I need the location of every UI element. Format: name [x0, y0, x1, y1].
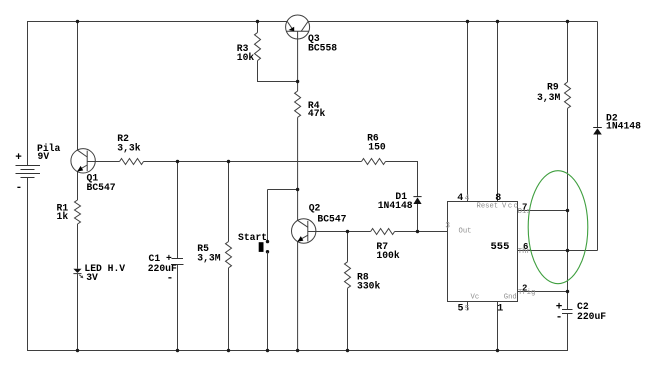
label R5 3,3M — [197, 243, 220, 264]
svg-text:1N4148: 1N4148 — [378, 200, 413, 211]
label D2 1N4148 — [606, 112, 641, 131]
capacitor C2 220uF — [562, 310, 573, 314]
label battery Pila 9V — [15, 143, 60, 194]
node Dis / R9 column — [566, 209, 569, 212]
svg-text:4: 4 — [465, 194, 470, 203]
wire R9/C2 column from top rail — [567, 22, 569, 83]
svg-text:1: 1 — [497, 303, 503, 314]
wire C2 to bottom rail — [567, 314, 569, 351]
svg-text:3,3M: 3,3M — [537, 92, 560, 103]
wire R3 bottom L to Q3 base node — [258, 61, 298, 82]
label Q1 BC547 — [87, 173, 116, 193]
node start branch / collector line — [296, 188, 299, 191]
svg-text:5: 5 — [465, 304, 470, 313]
wire R4 to Q2 collector — [297, 117, 299, 220]
wire left rail from top to battery — [27, 22, 29, 166]
wire left rail from battery to bottom — [27, 178, 29, 351]
wire LED to bottom rail — [77, 274, 79, 351]
wire switch to bottom rail — [267, 252, 269, 351]
svg-text:3: 3 — [445, 221, 450, 230]
transistor Q2 BC547 — [292, 219, 317, 243]
svg-text:3,3k: 3,3k — [117, 142, 140, 153]
svg-text:-: - — [16, 182, 23, 194]
wire pin 2 Trig to C2 node — [518, 291, 568, 293]
svg-text:-: - — [167, 273, 174, 285]
transistor Q3 BC558 — [286, 15, 310, 39]
wire R8 branch — [347, 232, 349, 262]
node bottom rail / R8 — [346, 349, 349, 352]
capacitor C1 220uF — [171, 259, 184, 265]
node base line / C1 — [176, 160, 179, 163]
wire pin 7 Dis to node — [518, 210, 568, 212]
wire Q1 base lead — [87, 161, 119, 163]
node bottom rail / pin1 — [496, 349, 499, 352]
wire D2 column from top rail right end — [597, 22, 599, 128]
Q3 emitter arrow — [289, 27, 295, 32]
label R9 3,3M — [537, 81, 560, 103]
label C2 220uF — [556, 301, 607, 323]
svg-text:555: 555 — [491, 241, 510, 253]
svg-text:-: - — [556, 311, 563, 323]
label R8 330k — [357, 271, 380, 291]
node bottom rail / switch — [266, 349, 269, 352]
svg-text:1N4148: 1N4148 — [606, 120, 641, 131]
node Trig / C2 — [566, 290, 569, 293]
transistor Q1 BC547 — [71, 149, 96, 173]
node R3-R4-Q3 base — [296, 80, 299, 83]
svg-text:Start: Start — [238, 232, 267, 243]
node top rail / pin8 — [496, 20, 499, 23]
svg-text:100k: 100k — [376, 250, 399, 261]
wire collector branch x=77 from top rail to Q1 — [77, 22, 79, 151]
wire R7 to 555 Out pin 3 — [395, 231, 448, 233]
svg-text:1k: 1k — [57, 211, 69, 222]
label R3 10k — [237, 43, 255, 63]
svg-text:Out: Out — [459, 227, 472, 235]
resistor R1 — [75, 200, 81, 224]
wire Q3 base down to node — [297, 31, 299, 91]
diode D2 1N4148 — [593, 128, 602, 135]
wire R9 down through pin7/pin6/pin2 nodes to C2 — [567, 108, 569, 309]
label Q2 BC547 — [309, 202, 347, 224]
svg-text:3V: 3V — [86, 272, 98, 283]
wire R5 to bottom rail — [228, 268, 230, 351]
svg-text:BC547: BC547 — [87, 182, 116, 193]
node top rail / R3 — [256, 20, 259, 23]
svg-text:2: 2 — [522, 284, 527, 294]
wire bottom rail — [27, 350, 568, 352]
svg-text:6: 6 — [523, 242, 528, 252]
wire Q2 emitter to bottom rail — [297, 242, 299, 351]
label R4 47k — [308, 100, 326, 119]
svg-text:Gnd: Gnd — [504, 294, 517, 302]
resistor R2 — [120, 159, 144, 165]
svg-text:330k: 330k — [357, 280, 380, 291]
svg-text:10k: 10k — [237, 52, 255, 63]
node top rail / R9 — [566, 20, 569, 23]
555 black pin numbers — [457, 193, 528, 314]
wire R1 to LED — [77, 224, 79, 269]
wire Q2 base lead to R7 — [316, 231, 371, 233]
node bottom rail / LED — [76, 349, 79, 352]
wire R6 to corner down to D1 — [386, 162, 418, 197]
node Out line / R8 — [346, 230, 349, 233]
svg-text:47k: 47k — [308, 108, 326, 119]
wire pin 1 Gnd to bottom rail — [497, 302, 499, 351]
resistor R5 — [226, 242, 232, 268]
node bottom rail / C1 — [176, 349, 179, 352]
node top rail / pin4 — [466, 20, 469, 23]
Q1 emitter arrow — [77, 166, 83, 172]
svg-text:3,3M: 3,3M — [197, 252, 220, 263]
wire start-branch horizontal y=189 — [268, 189, 298, 191]
svg-text:+: + — [15, 152, 22, 164]
pin 5 stub — [467, 302, 469, 311]
resistor R6 — [362, 159, 386, 165]
wire top rail — [27, 21, 598, 23]
node bottom rail / R5 — [227, 349, 230, 352]
wire R3 branch from top rail — [257, 22, 259, 33]
Q2 emitter arrow — [297, 236, 303, 242]
svg-text:Q2: Q2 — [309, 202, 321, 213]
svg-text:9V: 9V — [38, 151, 50, 162]
node Out line / D1 — [416, 230, 419, 233]
wire pin 6 Thr line to D2 column — [518, 250, 598, 252]
node top rail / Q1 collector — [76, 20, 79, 23]
wire pin 4 Reset from top rail — [467, 22, 469, 202]
svg-text:7: 7 — [522, 202, 527, 212]
wire start-branch vertical down to switch — [267, 190, 269, 242]
switch Start (push button) — [259, 240, 269, 253]
resistor R4 — [295, 91, 301, 117]
resistor R7 — [371, 229, 395, 235]
resistor R3 — [255, 33, 261, 61]
svg-text:R9: R9 — [547, 81, 559, 92]
wire D2 anode down to Thr line — [597, 135, 599, 251]
LED D3 LED H.V — [73, 269, 83, 278]
resistor R9 — [565, 82, 571, 108]
resistor R8 — [345, 262, 351, 288]
svg-text:BC558: BC558 — [308, 42, 337, 53]
label R1 1k — [57, 202, 69, 222]
svg-text:Vc: Vc — [471, 294, 480, 302]
battery B1 Pila 9V — [16, 166, 41, 178]
label R2 3,3k — [117, 133, 140, 153]
label C1 220uF — [148, 253, 177, 284]
wire C1 to bottom rail — [177, 265, 179, 351]
IC U1 555 body — [448, 202, 518, 302]
wire D1 anode to Out line — [417, 204, 419, 232]
svg-text:4: 4 — [457, 193, 463, 204]
label LED H.V 3V — [84, 263, 125, 283]
diode D1 1N4148 — [413, 197, 421, 204]
label Q3 BC558 — [308, 33, 337, 54]
wire R5 branch down from base line — [228, 162, 230, 242]
label D1 1N4148 — [378, 191, 413, 211]
node Thr / R9 column — [566, 249, 569, 252]
node base line / R5 — [227, 160, 230, 163]
label R7 100k — [376, 241, 399, 261]
wire Q1 emitter to R1 — [77, 172, 79, 200]
svg-text:150: 150 — [368, 142, 386, 153]
wire pin 8 Vcc from top rail — [497, 22, 499, 202]
svg-text:BC547: BC547 — [317, 213, 346, 224]
svg-text:220uF: 220uF — [577, 311, 606, 322]
555 grey pin names — [445, 194, 535, 313]
highlight ellipse (green) — [528, 171, 588, 284]
wire C1 branch down from base line — [177, 162, 179, 259]
node bottom rail / Q2 emitter — [296, 349, 299, 352]
wire base line from R2 to R6 — [144, 161, 362, 163]
wire R8 to bottom rail — [347, 288, 349, 350]
svg-text:8: 8 — [495, 193, 501, 204]
svg-text:5: 5 — [458, 303, 464, 314]
label R6 150 — [367, 132, 386, 152]
